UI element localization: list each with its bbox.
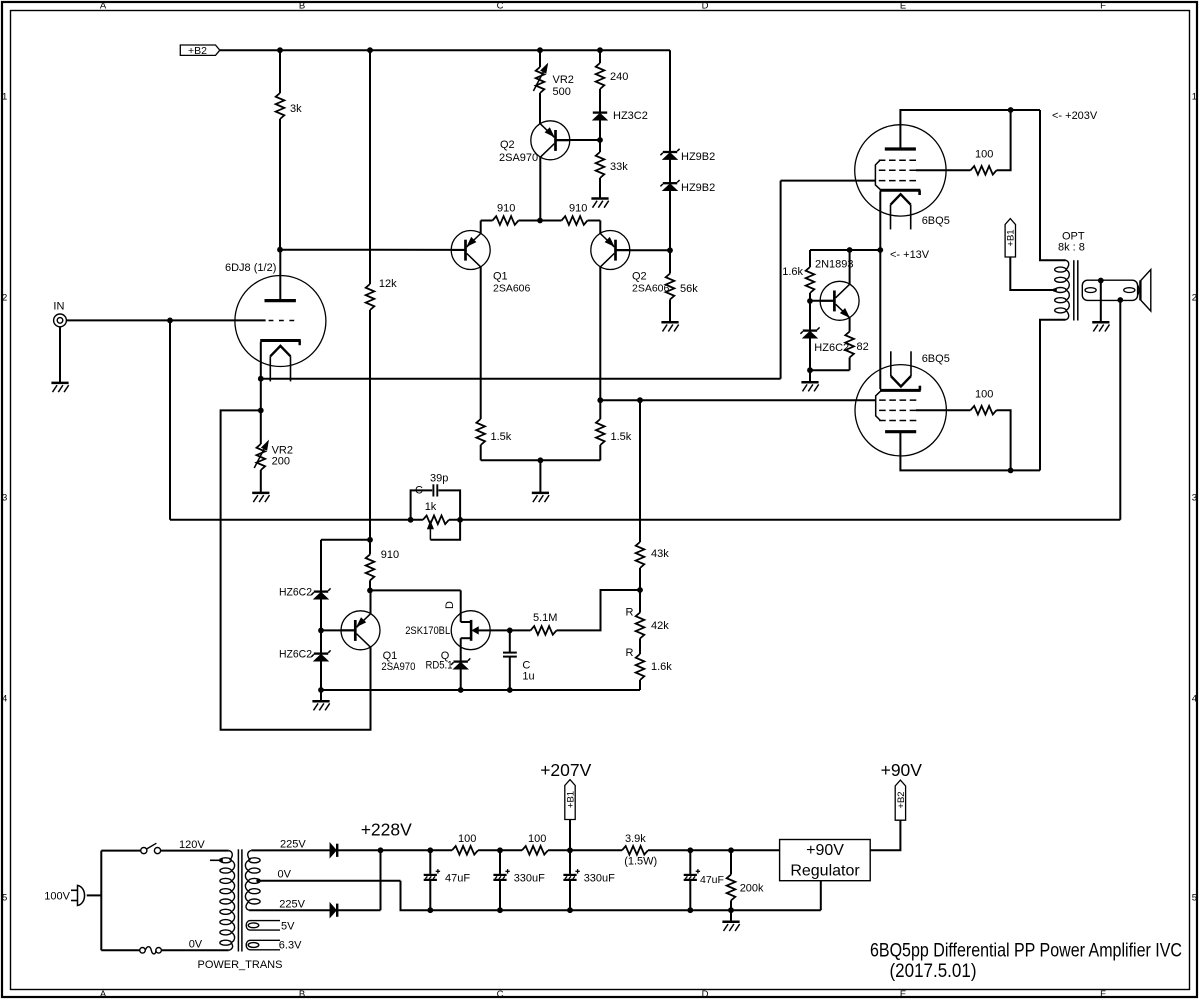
svg-text:2SA606: 2SA606 <box>493 282 531 294</box>
svg-text:2: 2 <box>2 292 7 303</box>
svg-text:F: F <box>1100 1 1106 12</box>
wire ground rail y=690 <box>321 689 640 691</box>
wire 1.5k common <box>481 459 601 461</box>
svg-text:RD5.1: RD5.1 <box>426 660 453 672</box>
capacitor C 1u <box>509 630 511 652</box>
wire zener drop <box>809 301 811 370</box>
resistor 43k <box>639 400 641 542</box>
svg-text:E: E <box>900 1 906 12</box>
svg-text:100: 100 <box>975 149 993 161</box>
tube 6BQ5 upper <box>855 125 946 216</box>
svg-text:C: C <box>497 1 504 12</box>
wire Q2 emitter stub <box>599 221 601 234</box>
wire 2N1893 collector <box>849 250 851 285</box>
resistor 910 left <box>493 216 519 225</box>
svg-text:330uF: 330uF <box>584 873 615 885</box>
transistor Q1 2SA606 <box>451 231 490 270</box>
svg-text:120V: 120V <box>179 839 205 851</box>
svg-text:HZ6C2: HZ6C2 <box>279 587 312 599</box>
wire 100 down to plate node <box>997 410 1011 470</box>
wire lower g2 to 100 <box>916 409 971 411</box>
ground 1.5k <box>539 460 541 492</box>
wire 6DJ8 grid-row to Q1 base <box>280 249 465 251</box>
svg-text:Q1: Q1 <box>493 270 508 282</box>
resistor 100 psu1 <box>452 846 478 855</box>
node 47uF top <box>427 847 433 853</box>
resistor 33k <box>599 140 601 152</box>
resistor 82 <box>849 317 851 331</box>
svg-text:HZ3C2: HZ3C2 <box>613 110 648 122</box>
svg-text:240: 240 <box>610 71 628 83</box>
svg-text:5.1M: 5.1M <box>533 612 557 624</box>
node 43k-42k <box>637 587 643 593</box>
svg-text:6BQ5: 6BQ5 <box>922 353 950 365</box>
svg-text:910: 910 <box>569 202 587 214</box>
zener HZ6C2 lower <box>314 652 328 654</box>
capacitor C 39p <box>411 490 433 519</box>
ground 33k <box>591 197 608 200</box>
svg-text:2SA606: 2SA606 <box>632 282 670 294</box>
resistor 910 (servo) <box>369 540 371 555</box>
svg-text:IN: IN <box>53 300 64 312</box>
svg-text:D: D <box>702 989 709 1000</box>
wire upper plate lead <box>900 110 1040 149</box>
svg-text:C: C <box>497 989 504 1000</box>
wire 100 up to plate node <box>997 110 1011 170</box>
svg-text:2SA970: 2SA970 <box>499 152 538 164</box>
diode rectifier top <box>330 844 336 857</box>
wire Q1-servo base <box>321 629 355 631</box>
svg-text:R: R <box>626 607 634 619</box>
svg-text:A: A <box>100 989 107 1000</box>
resistor 1.6k (bias) <box>809 250 811 267</box>
svg-text:(1.5W): (1.5W) <box>624 856 657 868</box>
wire Q2-2SA606 base to 56k node <box>616 249 671 251</box>
node zener-ground <box>318 687 324 693</box>
wire HZ9B2 branch vertical x=670 <box>669 50 671 250</box>
svg-text:3.9k: 3.9k <box>625 833 646 845</box>
svg-text:+228V: +228V <box>361 819 412 839</box>
wire 1.6k to ground rail <box>639 680 641 690</box>
trimmer 1k wiper arrow <box>429 529 431 540</box>
zener RD5.1 <box>454 660 468 662</box>
svg-text:<- +13V: <- +13V <box>890 249 930 261</box>
node 47uF-2 top <box>687 847 693 853</box>
svg-text:8k : 8: 8k : 8 <box>1058 242 1085 254</box>
svg-text:+207V: +207V <box>540 760 591 780</box>
ground psu <box>730 910 732 921</box>
wire 6DJ8 cathode lead <box>260 342 262 410</box>
ground OPT secondary <box>1100 281 1102 323</box>
svg-text:E: E <box>900 989 906 1000</box>
node cathode-VR2 <box>258 408 264 414</box>
node 1.6k-base <box>807 298 813 304</box>
node 200k bottom <box>728 907 734 913</box>
capacitor 330uF first <box>499 850 501 874</box>
node gate <box>507 628 513 634</box>
wire grid node to divider <box>600 399 875 401</box>
svg-text:6BQ5: 6BQ5 <box>922 215 950 227</box>
svg-text:12k: 12k <box>379 278 397 290</box>
transformer OPT core <box>1073 260 1075 320</box>
transformer PT 6.3V winding <box>250 939 281 941</box>
node HZ3C2-33k <box>597 137 603 143</box>
svg-text:(2017.5.01): (2017.5.01) <box>890 960 977 982</box>
node 910-910 <box>537 218 543 224</box>
svg-text:+B1: +B1 <box>565 791 576 808</box>
capacitor 330uF second <box>569 850 571 874</box>
svg-text:225V: 225V <box>279 899 305 911</box>
node 330uF-1 top <box>497 847 503 853</box>
resistor 56k <box>669 250 671 273</box>
svg-text:2SK170BL: 2SK170BL <box>405 625 450 637</box>
wire rectifier join <box>380 850 382 910</box>
wire 82 bottom link <box>810 369 850 371</box>
wire cathode rail y=250 <box>810 249 880 251</box>
svg-text:330uF: 330uF <box>514 873 545 885</box>
svg-text:6BQ5pp Differential PP Power A: 6BQ5pp Differential PP Power Amplifier I… <box>870 940 1182 962</box>
svg-text:100: 100 <box>975 389 993 401</box>
node IN junction <box>167 318 173 324</box>
wire 225V bottom <box>249 909 380 911</box>
node 330uF-2 top <box>567 847 573 853</box>
node B2-3k <box>277 247 283 253</box>
svg-text:C: C <box>415 485 423 497</box>
node 47uF bottom <box>427 907 433 913</box>
node bias bottom <box>807 367 813 373</box>
transistor Q2 2SA606 <box>591 231 630 270</box>
svg-text:<- +203V: <- +203V <box>1052 110 1098 122</box>
zener HZ9B2 upper <box>663 151 677 153</box>
svg-text:HZ6C2: HZ6C2 <box>814 342 849 354</box>
node 47uF-2 bottom <box>687 907 693 913</box>
svg-text:Q2: Q2 <box>632 270 647 282</box>
wire Q1 emitter stub <box>480 221 482 234</box>
wire source to zener <box>460 638 462 690</box>
svg-text:1.5k: 1.5k <box>491 431 512 443</box>
wire 0V drop to rail <box>401 881 821 911</box>
svg-text:2: 2 <box>1192 292 1197 303</box>
node zener-base <box>318 628 324 634</box>
resistor 910 right <box>562 216 588 225</box>
svg-text:39p: 39p <box>430 473 448 485</box>
svg-text:200k: 200k <box>740 883 764 895</box>
svg-text:2SA970: 2SA970 <box>381 661 415 673</box>
variable resistor VR2 200 <box>260 410 262 444</box>
transistor 2N1893 <box>820 281 859 320</box>
resistor 12k <box>369 50 371 284</box>
svg-text:0V: 0V <box>278 869 292 881</box>
svg-text:1.5k: 1.5k <box>611 431 632 443</box>
svg-text:5V: 5V <box>281 920 295 932</box>
resistor 1.5k left <box>476 419 485 445</box>
switch SW <box>141 848 147 854</box>
svg-text:OPT: OPT <box>1062 230 1085 242</box>
wire Q1 collector to 1.5k left <box>480 267 482 419</box>
power flag +B1 (OPT tap) <box>1005 219 1015 257</box>
transformer PT primary <box>229 851 232 861</box>
wire 0V secondary tap <box>256 879 260 883</box>
svg-text:+90V: +90V <box>881 760 923 780</box>
node secondary top <box>1098 278 1104 284</box>
transformer PT core <box>237 849 239 951</box>
wire tap to zener chain <box>321 539 370 541</box>
svg-text:5: 5 <box>1192 892 1197 903</box>
wire PT primary tap <box>210 859 220 861</box>
wire Q2-2SA970 base to node <box>556 139 601 141</box>
resistor R 42k <box>639 590 641 613</box>
wire regulator bottom <box>820 881 822 911</box>
resistor 100 psu2 <box>522 846 548 855</box>
svg-text:225V: 225V <box>280 839 306 851</box>
svg-text:82: 82 <box>857 341 869 353</box>
wire upper g1 entry <box>781 180 876 182</box>
transformer OPT secondary <box>1082 280 1137 300</box>
wire gate node <box>490 629 510 631</box>
wire grid line vertical x=780.6 <box>780 181 782 379</box>
node divider top <box>637 397 643 403</box>
ground VR2 200 <box>252 492 269 495</box>
svg-text:+B1: +B1 <box>1006 229 1017 246</box>
svg-text:2N1893: 2N1893 <box>815 259 854 271</box>
node plate-B1 <box>1008 107 1014 113</box>
svg-text:4: 4 <box>2 693 7 704</box>
node 1.5k mid <box>538 457 544 463</box>
node C1u-ground rail <box>507 687 513 693</box>
svg-text:Regulator: Regulator <box>790 863 860 880</box>
svg-text:HZ9B2: HZ9B2 <box>681 182 715 194</box>
node collector-cathode rail <box>847 247 853 253</box>
svg-text:B: B <box>299 1 305 12</box>
regulator box +90V <box>780 840 871 881</box>
wire input feedback vertical x=170 <box>169 320 171 519</box>
node top rail junctions <box>277 47 283 53</box>
fuse <box>140 948 146 954</box>
diode HZ3C2 <box>593 111 607 113</box>
resistor 1.5k right <box>596 419 605 445</box>
node OPT tap terminal <box>1053 288 1056 291</box>
svg-text:6.3V: 6.3V <box>279 940 302 952</box>
svg-text:56k: 56k <box>680 283 698 295</box>
zener HZ9B2 lower <box>663 182 677 184</box>
capacitor 47uF first <box>429 850 431 874</box>
capacitor 47uF second <box>689 850 691 874</box>
wire IN to grid <box>66 319 170 321</box>
power flag +B2 (top rail) <box>180 45 220 55</box>
variable resistor VR2 500 <box>539 50 541 67</box>
tube 6BQ5 lower <box>855 365 946 456</box>
svg-text:47uF: 47uF <box>700 874 724 886</box>
node Q2-collector grid <box>597 397 603 403</box>
svg-text:+90V: +90V <box>806 842 844 859</box>
wire lower plate lead <box>900 432 1040 471</box>
svg-text:+B2: +B2 <box>188 45 207 57</box>
svg-text:VR2: VR2 <box>553 74 574 86</box>
wire 910 emitter link y=220.5 <box>481 220 493 222</box>
wire 5.1M to divider <box>557 590 641 630</box>
wire speaker return feedback <box>1119 300 1121 520</box>
svg-text:100V: 100V <box>44 891 70 903</box>
resistor 100 upper <box>971 166 997 175</box>
wire 2N1893 base <box>810 300 834 302</box>
transformer PT 5V winding <box>250 920 281 922</box>
svg-text:100: 100 <box>458 833 476 845</box>
svg-text:5: 5 <box>2 892 7 903</box>
resistor 100 lower <box>971 406 997 415</box>
ground bias <box>809 370 811 382</box>
wire OPT primary bottom link <box>1040 320 1066 471</box>
wire 225V top <box>251 849 380 851</box>
svg-text:A: A <box>100 1 107 12</box>
svg-text:D: D <box>702 1 709 12</box>
svg-text:1k: 1k <box>425 501 437 513</box>
svg-text:R: R <box>626 647 634 659</box>
wire lower cathode drop <box>879 250 881 389</box>
svg-text:47uF: 47uF <box>445 873 470 885</box>
node secondary bottom <box>1117 297 1123 303</box>
node base-56k <box>667 247 673 253</box>
transistor Q2 2SA970 <box>531 121 570 160</box>
diode rectifier bottom <box>330 904 336 917</box>
wire OPT primary top link <box>1040 110 1066 260</box>
svg-text:42k: 42k <box>651 620 669 632</box>
svg-text:+B2: +B2 <box>896 791 907 808</box>
svg-text:1u: 1u <box>522 671 534 683</box>
transformer OPT primary winding <box>1066 260 1069 269</box>
ground IN <box>59 327 61 383</box>
wire Q2 collector to grid node <box>599 267 601 419</box>
resistor 3k <box>279 50 281 93</box>
wire plug to switch/fuse <box>87 894 102 896</box>
wire upper cathode drop <box>879 192 881 251</box>
svg-text:1: 1 <box>1192 91 1197 102</box>
node 12k-910 tap <box>367 537 373 543</box>
svg-text:1.6k: 1.6k <box>782 266 803 278</box>
node source-ground rail <box>458 687 464 693</box>
resistor R 1.6k <box>639 639 641 655</box>
wire OPT center tap <box>1010 257 1054 290</box>
resistor 5.1M <box>510 629 531 631</box>
svg-text:3: 3 <box>1192 492 1197 503</box>
node 910-drain <box>367 588 373 594</box>
svg-text:3: 3 <box>2 492 7 503</box>
svg-text:910: 910 <box>381 549 399 561</box>
resistor 1k trimmer <box>423 516 449 525</box>
svg-text:100: 100 <box>528 833 546 845</box>
wire +B2 rail y=50 <box>220 49 670 51</box>
svg-text:200: 200 <box>272 456 290 468</box>
svg-text:0V: 0V <box>189 939 203 951</box>
svg-text:HZ6C2: HZ6C2 <box>279 649 312 661</box>
wire B+ rail <box>381 849 453 851</box>
node 39p right <box>457 517 463 523</box>
transformer PT HV secondary <box>248 850 251 860</box>
wire feedback grid line y=378.7 <box>261 378 781 380</box>
wire feedback rail y=520 <box>170 519 423 521</box>
wire Q1-servo emitter <box>370 590 372 613</box>
resistor 3.9k <box>622 846 648 855</box>
wire Q2-2SA970 collector <box>539 157 541 221</box>
node 39p left <box>408 517 414 523</box>
svg-text:1: 1 <box>2 91 7 102</box>
svg-text:B: B <box>299 989 305 1000</box>
svg-text:1.6k: 1.6k <box>651 661 672 673</box>
node +228V <box>378 847 384 853</box>
svg-text:4: 4 <box>1192 693 1197 704</box>
zener HZ6C2 (bias) <box>803 329 817 331</box>
resistor 240 <box>599 50 601 63</box>
svg-text:43k: 43k <box>651 548 669 560</box>
ground servo <box>320 690 322 701</box>
wire regulator output <box>870 820 900 850</box>
svg-text:6DJ8 (1/2): 6DJ8 (1/2) <box>225 262 276 274</box>
node cathode-feedback <box>258 376 264 382</box>
wire zener chain vertical x=321 <box>320 540 322 690</box>
svg-text:33k: 33k <box>610 161 628 173</box>
node 330uF-2 bottom <box>567 907 573 913</box>
jfet 2SK170BL <box>451 611 490 650</box>
svg-text:D: D <box>444 601 456 609</box>
transistor Q1 2SA970 (servo) <box>341 611 380 650</box>
svg-text:500: 500 <box>553 86 571 98</box>
node lower plate-OPT <box>1008 468 1014 474</box>
node 330uF-1 bottom <box>497 907 503 913</box>
wire upper g2 to 100 <box>916 169 971 171</box>
ground 56k <box>661 321 678 324</box>
wire cathode to current source loop <box>221 410 371 729</box>
svg-text:910: 910 <box>497 202 515 214</box>
speaker <box>1139 280 1141 300</box>
svg-text:HZ9B2: HZ9B2 <box>681 151 715 163</box>
resistor 200k <box>730 850 732 874</box>
svg-text:Q2: Q2 <box>500 139 515 151</box>
svg-text:F: F <box>1100 989 1106 1000</box>
wire drain link <box>370 589 461 591</box>
node 200k top <box>728 847 734 853</box>
zener HZ6C2 upper <box>314 590 328 592</box>
node cathode link <box>877 247 883 253</box>
svg-text:POWER_TRANS: POWER_TRANS <box>198 959 283 971</box>
svg-text:3k: 3k <box>290 103 302 115</box>
